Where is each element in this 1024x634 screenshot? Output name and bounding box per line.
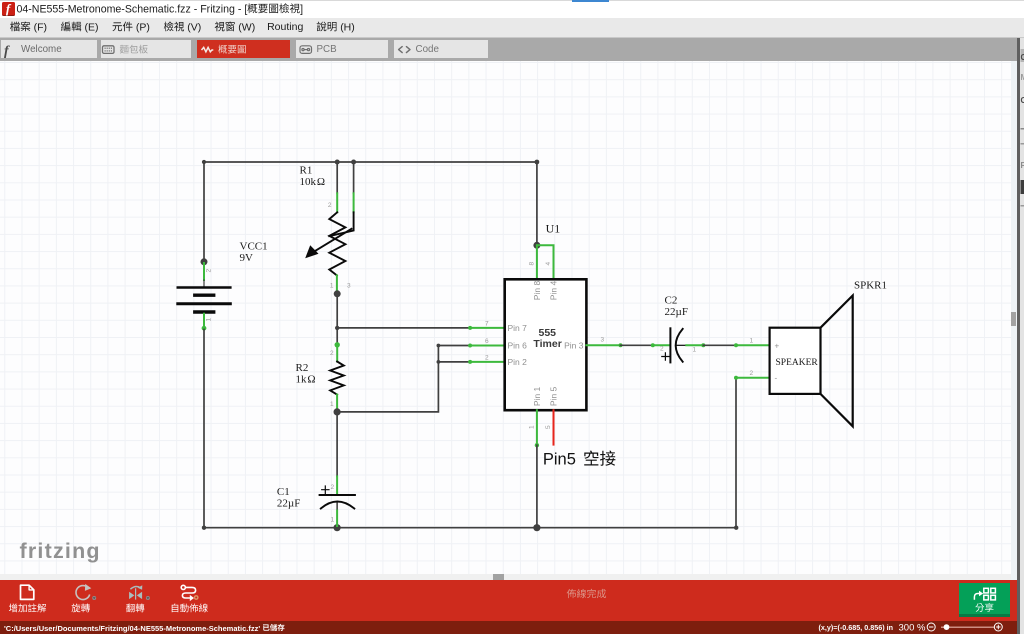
potentiometer R1 wiper arrow bbox=[311, 229, 352, 254]
svg-text:C1: C1 bbox=[277, 486, 290, 498]
svg-text:Pin 1: Pin 1 bbox=[532, 386, 542, 406]
wire speaker pin2 down bbox=[735, 378, 737, 528]
status bar bbox=[0, 621, 1017, 634]
node C2 right green dot bbox=[701, 343, 705, 347]
node pin6 corner bbox=[437, 344, 441, 348]
wire R1 pin3 drop bbox=[353, 162, 355, 193]
potentiometer R1 pin1 lead bbox=[336, 275, 338, 293]
text toolbar 翻轉 bbox=[126, 604, 144, 613]
battery VCC1 plates bbox=[178, 286, 231, 289]
share button icon bbox=[974, 588, 995, 600]
battery VCC1 pin1 lead bbox=[203, 314, 205, 330]
svg-text:2: 2 bbox=[331, 484, 335, 491]
svg-text:1: 1 bbox=[330, 401, 334, 408]
svg-text:2: 2 bbox=[750, 370, 754, 377]
node rail left corner bbox=[202, 526, 206, 530]
capacitor C1 curved plate bbox=[321, 502, 355, 509]
svg-text:3: 3 bbox=[347, 283, 351, 290]
capacitor C1 top plate bbox=[320, 494, 355, 496]
text menu 說明 bbox=[317, 22, 337, 32]
op-amp U1 555 timer body bbox=[505, 279, 587, 410]
zoom out icon bbox=[927, 623, 935, 631]
speaker SPKR1 pin2 lead bbox=[736, 377, 770, 379]
svg-text:22µF: 22µF bbox=[277, 497, 300, 509]
code tab icon bbox=[399, 47, 410, 53]
node battery bottom green dot bbox=[202, 326, 207, 331]
wire bottom rail bbox=[204, 527, 736, 529]
svg-text:1k Ω: 1k Ω bbox=[296, 374, 316, 386]
text toolbar 旋轉 bbox=[72, 604, 90, 613]
svg-text:2: 2 bbox=[330, 350, 334, 357]
wire U1 power drop bbox=[536, 162, 538, 245]
node R1 pin1 junction bbox=[334, 290, 341, 297]
svg-text:Pin 2: Pin 2 bbox=[508, 357, 528, 367]
svg-text:1: 1 bbox=[330, 283, 334, 290]
node battery top junction bbox=[201, 258, 208, 265]
svg-text:VCC1: VCC1 bbox=[240, 241, 268, 253]
toolbar flip icon bbox=[129, 592, 142, 599]
right sliver panel bbox=[1017, 38, 1024, 634]
resistor R2 zigzag body bbox=[330, 362, 344, 395]
wire pin7 branch bbox=[337, 327, 470, 329]
wire battery to ground rail bbox=[203, 330, 205, 528]
svg-text:Pin 6: Pin 6 bbox=[508, 341, 528, 351]
node speaker pin1 green dot bbox=[734, 343, 738, 347]
potentiometer R1 pin3 lead bbox=[353, 193, 355, 212]
svg-text:1: 1 bbox=[693, 346, 697, 353]
svg-text:Pin 8: Pin 8 bbox=[532, 281, 542, 301]
svg-text:5: 5 bbox=[545, 425, 552, 429]
svg-text:Timer: Timer bbox=[533, 338, 561, 350]
node pin2 wire end green dot bbox=[468, 360, 472, 364]
capacitor C2 pin2 lead bbox=[653, 344, 670, 346]
svg-text:6: 6 bbox=[485, 338, 489, 345]
node pin6 wire end green dot bbox=[468, 344, 472, 348]
capacitor C1 pin2 lead bbox=[336, 476, 338, 494]
node R1 pin2 top bbox=[335, 160, 340, 165]
svg-text:Pin 4: Pin 4 bbox=[549, 281, 559, 301]
schematic tab waveform icon bbox=[202, 47, 214, 51]
svg-text:R2: R2 bbox=[296, 362, 309, 374]
text title-cjk 概要圖檢視 bbox=[247, 3, 299, 13]
node rail C1 junction bbox=[334, 524, 341, 531]
wire R2 bottom to C1 bbox=[336, 412, 338, 477]
speaker SPKR1 horn bbox=[821, 296, 853, 427]
svg-text:8: 8 bbox=[529, 262, 536, 266]
svg-text:1: 1 bbox=[750, 337, 754, 344]
svg-text:2: 2 bbox=[206, 269, 213, 273]
svg-text:Pin 7: Pin 7 bbox=[508, 323, 528, 333]
menu bar bbox=[0, 18, 1024, 38]
svg-text:SPKR1: SPKR1 bbox=[854, 280, 887, 292]
node C2 left green dot bbox=[651, 343, 655, 347]
share button bbox=[959, 583, 1010, 617]
speaker SPKR1 body bbox=[770, 328, 821, 394]
wire R1 to R2 bbox=[336, 294, 338, 344]
wire top rail bbox=[204, 161, 537, 163]
tab bar bbox=[0, 38, 1024, 61]
horizontal scrollbar bbox=[0, 574, 1011, 581]
svg-text:1: 1 bbox=[529, 425, 536, 429]
node R2 pin2 green dot bbox=[335, 342, 340, 347]
red toolbar bbox=[0, 580, 1017, 621]
svg-text:R1: R1 bbox=[300, 164, 313, 176]
capacitor C1 pin1 lead bbox=[336, 511, 338, 527]
svg-text:-: - bbox=[775, 373, 778, 382]
node R1 pin3 top bbox=[351, 160, 356, 165]
wire R2 bottom branch right bbox=[337, 346, 438, 412]
potentiometer R1 pin3 wire to body bbox=[329, 212, 353, 236]
555 pin 2 lead bbox=[470, 361, 505, 363]
svg-text:10k Ω: 10k Ω bbox=[300, 176, 326, 188]
capacitor C2 straight plate bbox=[669, 328, 671, 362]
wire to pin2 bbox=[438, 361, 470, 363]
rotate dropdown arrow bbox=[92, 596, 96, 600]
svg-text:22µF: 22µF bbox=[665, 306, 688, 318]
resistor R2 pin1 lead bbox=[336, 395, 338, 412]
text routed 佈線完成 bbox=[567, 589, 606, 598]
right sliver panel text fragments bbox=[1021, 49, 1024, 207]
node pin1 wire green dot bbox=[535, 443, 539, 447]
text toolbar 自動佈線 bbox=[172, 604, 208, 613]
555 pin 7 lead bbox=[470, 327, 505, 329]
breadboard tab icon bbox=[103, 46, 115, 54]
text share 分享 bbox=[975, 603, 993, 612]
wire R1 pin2 drop bbox=[336, 162, 338, 193]
text menu 視窗 bbox=[215, 22, 235, 32]
capacitor C1 plus sign bbox=[322, 486, 329, 493]
node pin7 wire end green dot bbox=[468, 326, 472, 330]
node rail pin1 junction bbox=[533, 524, 540, 531]
svg-text:Pin5: Pin5 bbox=[543, 451, 576, 469]
wire C2 to speaker bbox=[703, 344, 736, 346]
svg-text:+: + bbox=[775, 341, 780, 350]
text menu 檔案 bbox=[10, 22, 30, 32]
node rail top-left corner bbox=[202, 160, 206, 164]
title bar bbox=[0, 0, 1024, 18]
flip dropdown arrow bbox=[146, 596, 150, 600]
node U1 power junction bbox=[533, 242, 540, 249]
wire pin1 to ground rail bbox=[536, 445, 538, 528]
text toolbar 增加註解 bbox=[9, 604, 46, 613]
svg-text:2: 2 bbox=[328, 202, 332, 209]
potentiometer R1 zigzag body bbox=[329, 212, 345, 275]
svg-text:2: 2 bbox=[485, 354, 489, 361]
speaker SPKR1 pin1 lead bbox=[736, 344, 770, 346]
node pin3 wire green dot bbox=[619, 343, 623, 347]
canvas with grid bbox=[0, 61, 1011, 574]
svg-text:SPEAKER: SPEAKER bbox=[776, 358, 819, 368]
toolbar rotate icon bbox=[76, 584, 91, 600]
text menu 編輯 bbox=[61, 22, 81, 32]
svg-text:2: 2 bbox=[660, 346, 664, 353]
svg-text:1: 1 bbox=[331, 517, 335, 524]
menu latin accelerators bbox=[34, 21, 355, 33]
wire pin3 to C2 bbox=[621, 344, 653, 346]
svg-text:C2: C2 bbox=[665, 295, 678, 307]
text tab 麵包板 bbox=[120, 45, 148, 54]
battery VCC1 pin2 lead bbox=[203, 263, 205, 280]
text tab 概要圖 bbox=[218, 45, 245, 54]
fritzing watermark bbox=[20, 539, 101, 564]
text menu 元件 bbox=[113, 22, 133, 32]
node rail right corner bbox=[734, 526, 738, 530]
ratsnest 555 pin 5 unconnected bbox=[553, 410, 555, 444]
node R2 bottom junction bbox=[334, 408, 341, 415]
node speaker pin2 corner bbox=[734, 376, 738, 380]
toolbar add note icon bbox=[21, 585, 34, 599]
toolbar autoroute icon bbox=[181, 585, 198, 601]
555 pin 1 lead bbox=[536, 410, 538, 445]
svg-text:9V: 9V bbox=[240, 252, 254, 264]
555 pin 3 lead bbox=[586, 344, 620, 346]
node pin7 branch bbox=[335, 326, 339, 330]
svg-text:1: 1 bbox=[206, 318, 213, 322]
resistor R2 pin2 lead bbox=[336, 345, 338, 362]
node rail top-right corner bbox=[535, 160, 540, 165]
capacitor C2 pin1 lead bbox=[686, 344, 703, 346]
vertical scrollbar bbox=[1011, 61, 1017, 581]
svg-text:4: 4 bbox=[545, 262, 552, 266]
node pin2 corner bbox=[437, 360, 441, 364]
wire to pin6 bbox=[438, 345, 470, 347]
555 pin 6 lead bbox=[470, 345, 505, 347]
svg-text:U1: U1 bbox=[546, 222, 561, 236]
text status 已儲存 bbox=[263, 624, 285, 631]
pcb tab icon bbox=[300, 46, 312, 54]
text annotation 空接 bbox=[584, 451, 615, 466]
svg-text:3: 3 bbox=[601, 336, 605, 343]
capacitor C2 curved plate bbox=[676, 329, 683, 362]
wire battery top bbox=[203, 162, 205, 262]
text menu 檢視 bbox=[164, 22, 184, 32]
potentiometer R1 pin2 lead bbox=[336, 193, 338, 212]
capacitor C2 plus sign bbox=[662, 353, 669, 360]
555 pin 4 lead bbox=[537, 245, 554, 279]
svg-text:Pin 3: Pin 3 bbox=[564, 340, 584, 350]
svg-text:Pin 5: Pin 5 bbox=[549, 386, 559, 406]
555 pin 8 lead bbox=[536, 245, 538, 279]
zoom slider bbox=[941, 626, 994, 628]
zoom in icon bbox=[994, 623, 1002, 631]
svg-text:7: 7 bbox=[485, 320, 489, 327]
